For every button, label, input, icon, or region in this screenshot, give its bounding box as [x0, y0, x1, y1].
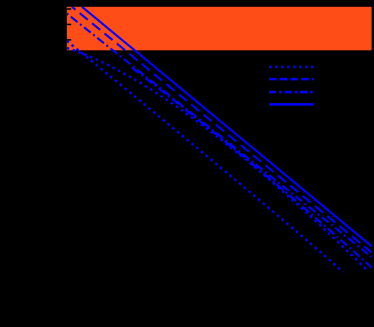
tick 3: [67, 39, 71, 41]
legend dashdot: [269, 91, 314, 94]
line dashed long: [72, 7, 372, 253]
line solid: [82, 7, 372, 247]
legend solid: [269, 103, 313, 106]
curve dotted upper: [67, 48, 367, 270]
legend dashed: [269, 78, 314, 81]
curve dotted lower: [67, 41, 343, 272]
orange band: [67, 7, 372, 51]
line dashdot A: [67, 14, 372, 258]
tick 2: [67, 24, 71, 26]
curve dashdot B: [132, 68, 372, 268]
tick 1: [67, 8, 71, 10]
legend dotted: [269, 66, 313, 69]
